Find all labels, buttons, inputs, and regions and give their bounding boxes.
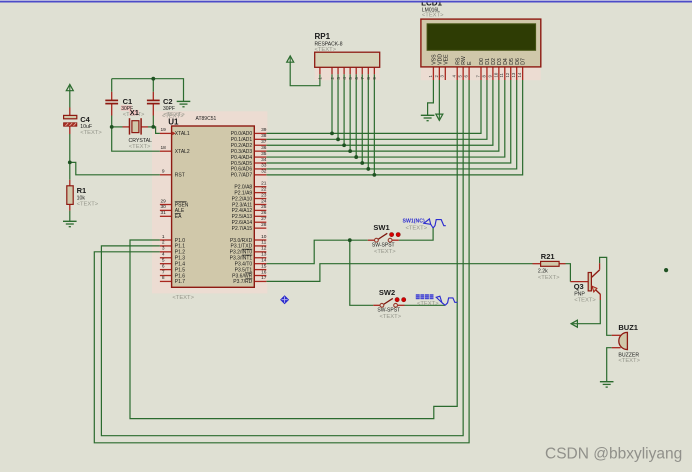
wire VCC arrow to C4 top bbox=[69, 91, 71, 108]
wire RP1 pin2 to P0.0 bus bbox=[331, 74, 333, 133]
svg-text:R21: R21 bbox=[541, 252, 555, 261]
svg-text:SW2: SW2 bbox=[379, 288, 395, 297]
power arrow left at Q3 emitter bbox=[571, 320, 577, 327]
label SW2 pulse (CJK) bbox=[416, 294, 420, 299]
U1 XTAL1 clock marker bbox=[172, 132, 175, 136]
wire C1 top stub bbox=[111, 79, 113, 92]
junction C2 top rail bbox=[151, 77, 155, 81]
wire XTAL top rail C1-C2-ground bbox=[112, 79, 184, 102]
svg-text:9: 9 bbox=[162, 169, 165, 175]
svg-text:<TEXT>: <TEXT> bbox=[406, 226, 428, 232]
switch SW2 bbox=[383, 298, 392, 304]
svg-text:2.2k: 2.2k bbox=[538, 269, 548, 275]
svg-text:C1: C1 bbox=[123, 97, 133, 106]
wire node to X1 left bbox=[112, 126, 123, 128]
svg-text:R1: R1 bbox=[77, 186, 87, 195]
svg-text:26: 26 bbox=[261, 210, 267, 216]
svg-text:13: 13 bbox=[511, 72, 516, 77]
ground below LCD VSS bbox=[421, 114, 435, 116]
junction RP1-P0.7 bbox=[372, 173, 376, 177]
svg-text:<TEXT>: <TEXT> bbox=[574, 297, 596, 303]
wire RP1 pin4 to P0.2 bus bbox=[343, 74, 345, 145]
LCD1 screen bbox=[427, 24, 535, 51]
ground right of C2 bbox=[177, 100, 191, 102]
power arrow VCC above C4 bbox=[66, 84, 73, 90]
junction X1 right node bbox=[151, 125, 155, 129]
svg-text:7: 7 bbox=[162, 269, 165, 275]
svg-text:33: 33 bbox=[261, 163, 267, 169]
svg-text:P0.7/AD7: P0.7/AD7 bbox=[231, 173, 253, 179]
Q3 emitter pin stub bbox=[599, 263, 601, 270]
svg-text:<TEXT>: <TEXT> bbox=[315, 47, 337, 53]
svg-text:6: 6 bbox=[354, 77, 359, 80]
wire junction to RST pin bbox=[70, 162, 160, 174]
svg-text:CSDN @bbxyliyang: CSDN @bbxyliyang bbox=[545, 446, 682, 463]
pulse generator SW1(NC) symbol bbox=[424, 219, 431, 224]
svg-text:C4: C4 bbox=[80, 115, 90, 124]
RP1 pin halo band bbox=[315, 67, 380, 80]
svg-text:16: 16 bbox=[261, 269, 267, 275]
svg-text:28: 28 bbox=[261, 222, 267, 228]
svg-text:38: 38 bbox=[261, 133, 267, 139]
svg-text:14: 14 bbox=[261, 257, 267, 263]
C4 pin stubs bbox=[69, 108, 71, 116]
svg-text:RP1: RP1 bbox=[315, 32, 331, 41]
SW2 pin stubs bbox=[373, 304, 380, 306]
svg-text:17: 17 bbox=[261, 275, 267, 281]
highlight X1 label bbox=[129, 110, 138, 116]
svg-text:9: 9 bbox=[372, 77, 377, 80]
wire P0.3 to LCD D3 bbox=[266, 80, 499, 151]
svg-text:EA: EA bbox=[175, 214, 182, 220]
svg-text:5: 5 bbox=[348, 77, 353, 80]
highlight C1 value bbox=[121, 105, 132, 110]
wire RP1 pin5 to P0.3 bus bbox=[349, 74, 351, 151]
wire RP1 pin6 to P0.4 bus bbox=[355, 74, 357, 157]
X1 pin stubs bbox=[123, 126, 130, 128]
svg-text:12: 12 bbox=[505, 72, 510, 77]
Q3 collector pin stub bbox=[599, 294, 601, 300]
svg-text:13: 13 bbox=[261, 252, 267, 258]
wire junction down to R1 bbox=[69, 162, 71, 179]
capacitor C1 bbox=[105, 99, 118, 101]
resistor R21 bbox=[541, 261, 560, 266]
svg-text:<TEXT>: <TEXT> bbox=[80, 130, 102, 136]
top window border line bbox=[0, 0, 692, 2]
wire P3.4 to SW1 bbox=[266, 240, 368, 264]
Q3 base pin stub bbox=[570, 281, 588, 283]
resistor R1 bbox=[67, 186, 73, 205]
svg-text:11: 11 bbox=[261, 240, 266, 246]
svg-text:10: 10 bbox=[261, 234, 267, 240]
svg-text:3: 3 bbox=[336, 77, 341, 80]
power arrow VCC at RP1 pin1 bbox=[287, 56, 294, 62]
svg-text:1: 1 bbox=[318, 77, 323, 80]
svg-text:11: 11 bbox=[499, 72, 504, 77]
svg-text:3: 3 bbox=[162, 246, 165, 252]
svg-text:30: 30 bbox=[161, 204, 167, 210]
junction C4/R1/RST node bbox=[68, 161, 72, 165]
svg-text:10uF: 10uF bbox=[80, 124, 92, 130]
svg-text:P2.7/A15: P2.7/A15 bbox=[232, 226, 253, 232]
C2 pin stubs bbox=[152, 92, 154, 100]
wire C4 bottom to node RST (junction) bbox=[69, 134, 71, 162]
svg-text:SW1(NC): SW1(NC) bbox=[403, 219, 425, 225]
svg-text:18: 18 bbox=[161, 145, 167, 151]
svg-text:RST: RST bbox=[175, 173, 185, 179]
svg-text:2: 2 bbox=[162, 240, 165, 246]
svg-text:VEE: VEE bbox=[443, 54, 449, 65]
svg-text:21: 21 bbox=[261, 181, 267, 187]
svg-text:37: 37 bbox=[261, 139, 267, 145]
svg-text:39: 39 bbox=[261, 127, 267, 133]
R1 pin stubs bbox=[69, 180, 71, 186]
svg-text:XTAL2: XTAL2 bbox=[175, 149, 190, 155]
LCD1 pin halo band bbox=[421, 67, 541, 80]
svg-text:BUZ1: BUZ1 bbox=[618, 323, 638, 332]
svg-text:P1.7: P1.7 bbox=[175, 279, 186, 285]
svg-text:8: 8 bbox=[162, 275, 165, 281]
wire P0.1 to LCD D1 bbox=[266, 80, 487, 139]
wire R1 bottom to ground bbox=[69, 211, 71, 222]
wire P0.6 to LCD D6 bbox=[266, 80, 516, 169]
junction RP1-P0.0 bbox=[330, 132, 334, 136]
svg-text:<TEXT>: <TEXT> bbox=[538, 275, 560, 281]
svg-text:<TEXT>: <TEXT> bbox=[417, 301, 439, 307]
svg-text:SW-SPST: SW-SPST bbox=[372, 243, 395, 249]
svg-text:XTAL1: XTAL1 bbox=[175, 131, 190, 137]
wire P0.2 to LCD D2 bbox=[266, 80, 493, 145]
wire node to XTAL1 pin bbox=[153, 127, 160, 133]
svg-text:Q3: Q3 bbox=[574, 282, 584, 291]
origin move cursor marker bbox=[280, 295, 289, 304]
svg-text:5: 5 bbox=[162, 257, 165, 263]
wire SW1 to pulse generator SW1(NC) bbox=[399, 228, 433, 240]
svg-text:10: 10 bbox=[493, 72, 498, 77]
wire P0.5 to LCD D5 bbox=[266, 80, 510, 163]
wire RP1 pin7 to P0.5 bus bbox=[361, 74, 363, 163]
junction SW1/SW2 node bbox=[348, 238, 352, 242]
svg-text:<TEXT>: <TEXT> bbox=[129, 144, 151, 150]
power arrow down at LCD VDD bbox=[436, 114, 443, 120]
RP1 pin stubs bbox=[319, 67, 321, 74]
SW1 pin stubs bbox=[368, 239, 375, 241]
junction RP1-P0.6 bbox=[366, 167, 370, 171]
wire VCC arrow to RP1 pin1 bbox=[290, 62, 320, 85]
capacitor C2 bbox=[147, 99, 160, 101]
svg-text:6: 6 bbox=[162, 263, 165, 269]
junction X1 left node bbox=[110, 125, 114, 129]
junction RP1-P0.4 bbox=[354, 155, 358, 159]
svg-text:<TEXT>: <TEXT> bbox=[172, 295, 194, 301]
svg-text:23: 23 bbox=[261, 192, 267, 198]
svg-text:10k: 10k bbox=[77, 195, 86, 201]
wire RP1 pin8 to P0.6 bus bbox=[367, 74, 369, 169]
capacitor C4 (electrolytic) bbox=[64, 115, 77, 118]
wire LCD VDD to power arrow bbox=[438, 80, 440, 114]
U1 selection halo band bbox=[152, 111, 267, 293]
svg-text:X1: X1 bbox=[130, 108, 139, 117]
svg-text:27: 27 bbox=[261, 216, 267, 222]
wire C2 top stub bbox=[152, 79, 154, 92]
wire X1 right to node bbox=[148, 126, 153, 128]
C1 pin stubs bbox=[111, 92, 113, 100]
svg-text:25: 25 bbox=[261, 204, 267, 210]
svg-text:31: 31 bbox=[161, 210, 167, 216]
stray junction dot right bbox=[664, 268, 668, 272]
wire P0.4 to LCD D4 bbox=[266, 80, 505, 157]
wire SW2 to pulse generator bbox=[405, 304, 446, 306]
wire LCD RS to P1.0 bbox=[130, 80, 457, 419]
svg-text:SW-SPST: SW-SPST bbox=[377, 308, 400, 314]
svg-text:7: 7 bbox=[360, 77, 365, 80]
U1 right pin stubs bbox=[254, 132, 266, 134]
svg-text:8: 8 bbox=[366, 77, 371, 80]
svg-text:32: 32 bbox=[261, 169, 267, 175]
op U1 microcontroller AT89C51 body bbox=[172, 126, 255, 287]
svg-text:<TEXT>: <TEXT> bbox=[422, 12, 444, 18]
junction RP1-P0.5 bbox=[360, 161, 364, 165]
wire P3.7 to R21 bbox=[266, 264, 532, 282]
svg-text:<TEXT>: <TEXT> bbox=[374, 249, 396, 255]
BUZ1 pin stubs bbox=[612, 334, 621, 336]
wire LCD RW to P1.1 bbox=[101, 80, 463, 436]
svg-text:4: 4 bbox=[342, 77, 347, 80]
svg-text:22: 22 bbox=[261, 186, 267, 192]
svg-text:<TEXT>: <TEXT> bbox=[380, 314, 402, 320]
svg-text:24: 24 bbox=[261, 198, 267, 204]
svg-text:D7: D7 bbox=[521, 58, 527, 65]
junction RP1-P0.2 bbox=[342, 143, 346, 147]
svg-text:1: 1 bbox=[162, 234, 165, 240]
wire Q3 collector to power arrow bbox=[577, 300, 600, 324]
ground below BUZ1 bbox=[600, 381, 614, 383]
wire R21 to Q3 base bbox=[566, 264, 571, 282]
svg-text:P3.7/RD: P3.7/RD bbox=[233, 279, 252, 285]
wire BUZ1 to ground bbox=[607, 348, 612, 382]
svg-text:34: 34 bbox=[261, 157, 267, 163]
display LCD1 LM016L body bbox=[421, 19, 541, 67]
wire C1 bottom to node XTAL2 bbox=[111, 116, 113, 127]
wire LCD VSS to ground bbox=[428, 80, 434, 115]
transistor Q3 PNP bbox=[588, 273, 591, 291]
pulse generator SW2 symbol bbox=[436, 296, 442, 302]
svg-text:36: 36 bbox=[261, 145, 267, 151]
junction RP1-P0.1 bbox=[336, 137, 340, 141]
wire RP1 pin9 to P0.7 bus bbox=[373, 74, 375, 175]
U1 left pin stubs bbox=[160, 132, 172, 134]
ground below R1 bbox=[63, 220, 77, 222]
svg-text:<TEXT>: <TEXT> bbox=[618, 358, 640, 364]
crystal X1 bbox=[129, 118, 131, 134]
svg-text:2: 2 bbox=[330, 77, 335, 80]
svg-text:4: 4 bbox=[162, 252, 165, 258]
wire Q3 emitter to BUZ1 bbox=[600, 257, 612, 335]
junction RP1-P0.3 bbox=[348, 149, 352, 153]
svg-text:AT89C51: AT89C51 bbox=[196, 116, 217, 122]
svg-text:U1: U1 bbox=[168, 118, 179, 127]
wire RP1 pin3 to P0.1 bus bbox=[337, 74, 339, 139]
svg-text:15: 15 bbox=[261, 263, 267, 269]
svg-text:E: E bbox=[467, 61, 473, 65]
LCD1 pin stubs bbox=[432, 67, 434, 80]
svg-text:14: 14 bbox=[517, 72, 522, 77]
resistor pack RP1 body bbox=[315, 52, 380, 67]
wire P0.0 to LCD D0 bbox=[266, 80, 481, 133]
wire LCD E to P1.2 bbox=[94, 80, 469, 443]
svg-text:C2: C2 bbox=[163, 97, 173, 106]
wire node to XTAL2 pin bbox=[112, 127, 160, 151]
svg-text:<TEXT>: <TEXT> bbox=[77, 202, 99, 208]
wire node to SW2 bbox=[350, 240, 374, 305]
wire C2 bottom to node XTAL1 bbox=[152, 116, 154, 127]
R21 pin stubs bbox=[533, 263, 541, 265]
buzzer BUZ1 bbox=[619, 332, 628, 349]
svg-text:SW1: SW1 bbox=[373, 223, 389, 232]
svg-text:19: 19 bbox=[161, 127, 167, 133]
wire P0.7 to LCD D7 bbox=[266, 80, 522, 175]
svg-text:35: 35 bbox=[261, 151, 267, 157]
svg-text:12: 12 bbox=[261, 246, 267, 252]
svg-text:29: 29 bbox=[161, 198, 167, 204]
switch SW1 bbox=[378, 233, 387, 239]
